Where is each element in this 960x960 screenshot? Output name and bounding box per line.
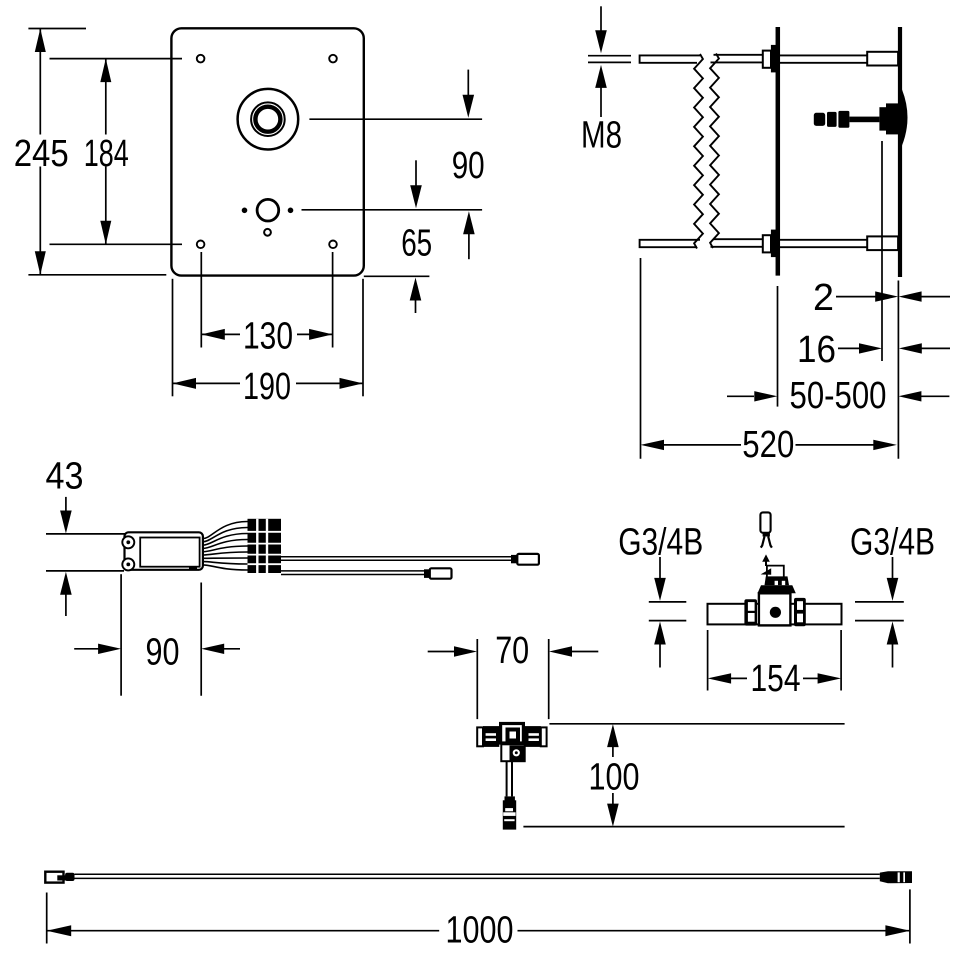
dim 190 left witness line — [172, 279, 174, 397]
dim 90 right arrow — [201, 644, 224, 654]
dim 130 arrow left — [201, 329, 225, 340]
wire 1 ferrule — [511, 555, 518, 563]
witness line electrode — [881, 141, 883, 361]
wire 2 ferrule — [424, 569, 430, 578]
ear circle top — [122, 536, 134, 548]
T center body — [501, 724, 524, 744]
witness line bracket plate — [777, 286, 779, 407]
SECTION: plate dimensions — [14, 29, 485, 409]
T center inner square — [508, 730, 519, 741]
dim 190 line left — [173, 382, 241, 384]
svg-text:16: 16 — [797, 329, 836, 371]
svg-text:50-500: 50-500 — [790, 375, 887, 417]
bottom anchor sleeve — [867, 236, 898, 250]
gland cap flare — [758, 585, 796, 593]
dim 245 arrow down — [35, 251, 46, 274]
svg-text:100: 100 — [589, 757, 640, 799]
witness line left rod end — [640, 258, 642, 459]
svg-text:154: 154 — [751, 658, 801, 700]
dim 16 — [838, 347, 860, 349]
SECTION: sensor cable drawing — [45, 871, 912, 952]
dim 184 line lower segment — [105, 167, 107, 245]
valve body dot — [770, 607, 781, 618]
right G3/4B arrow down — [892, 557, 894, 579]
dim 130 line left — [201, 333, 240, 335]
T stem — [506, 761, 508, 796]
dim 100 arrow down — [612, 793, 614, 805]
svg-text:245: 245 — [14, 133, 69, 175]
T lower box — [501, 744, 524, 761]
T lower box black insert — [510, 746, 525, 761]
insert arrow up — [762, 554, 770, 561]
outlet center reference line — [302, 209, 483, 211]
cable left ferrule — [57, 875, 66, 880]
top nut — [763, 51, 771, 68]
coil flag — [761, 568, 772, 575]
dim 43 arrow up — [60, 572, 72, 595]
right union nut — [794, 598, 806, 626]
screw hole bottom-left — [197, 241, 205, 249]
svg-text:520: 520 — [742, 424, 794, 466]
dim 1000 line right — [518, 930, 910, 932]
dim 184 arrow up — [100, 59, 111, 83]
front plate outline — [171, 28, 363, 275]
solenoid plug — [760, 512, 770, 532]
cable plug segment 2 — [827, 112, 837, 127]
gland cap upper — [765, 576, 790, 585]
sensor outer circle — [238, 89, 299, 150]
right pipe lines — [855, 601, 904, 603]
dim 130 right witness line — [332, 252, 334, 348]
cable left connector — [45, 872, 63, 883]
electrode body — [886, 103, 902, 134]
dim 100 bottom reference line — [523, 826, 844, 828]
dim 70 witness right — [548, 639, 550, 719]
long wire 2 — [281, 570, 425, 572]
dim 184 line upper segment — [105, 59, 107, 135]
T right cap — [541, 727, 547, 746]
dim 190 line right — [296, 382, 363, 384]
dim 90 witness left — [120, 574, 122, 696]
top washer — [771, 45, 776, 73]
top rod right segment — [714, 54, 764, 56]
grommet bulge — [902, 90, 908, 146]
right G3/4B arrow up — [887, 622, 899, 645]
arrow up to plate bottom — [410, 278, 422, 301]
dim 90 left arrow — [74, 648, 99, 650]
T collar — [505, 796, 515, 801]
dim 130 left witness line — [200, 252, 202, 348]
svg-text:2: 2 — [813, 277, 834, 319]
left pipe lines — [649, 601, 687, 603]
module outline — [125, 532, 203, 570]
SECTION: T-connector drawing — [428, 630, 845, 830]
T plug body — [503, 800, 516, 829]
screw hole top-left — [197, 55, 205, 63]
cable plug segment 3 — [838, 111, 849, 128]
arrow down to outlet line — [415, 160, 417, 186]
dim 90 witness right — [200, 583, 202, 696]
dim 154 witness left — [707, 630, 709, 691]
dim 100 top reference line — [549, 723, 844, 725]
bracket plate — [776, 27, 781, 276]
left G3/4B arrow down — [659, 557, 661, 579]
top anchor sleeve — [867, 52, 898, 66]
dim 520 — [641, 440, 665, 450]
dim 70 left arrow — [428, 651, 455, 653]
bottom rod right segment — [714, 238, 764, 240]
dim 190 arrow left — [173, 378, 197, 389]
connector stack — [248, 519, 282, 573]
svg-text:130: 130 — [243, 316, 293, 358]
long wire 1 — [281, 556, 512, 558]
M8 arrow up — [595, 65, 607, 88]
wire 1 end connector — [517, 554, 539, 565]
plug cable end — [763, 533, 770, 537]
left dot — [242, 208, 248, 214]
dim 130 arrow right — [309, 329, 333, 340]
svg-text:43: 43 — [46, 456, 84, 498]
dim 245 bottom witness line — [28, 274, 166, 276]
dim 184 top witness line — [50, 58, 183, 60]
sensor middle ring — [251, 102, 285, 136]
right dot — [288, 208, 294, 214]
small ring below outlet — [264, 229, 271, 236]
dim 1000 arrow right — [885, 925, 910, 936]
M8 witness ticks — [588, 55, 631, 57]
screw hole top-right — [329, 55, 337, 63]
dim 154 witness right — [840, 630, 842, 691]
electrode stem — [849, 117, 879, 123]
dim 245 line lower segment — [39, 167, 41, 275]
svg-text:70: 70 — [495, 630, 529, 672]
arrow up to outlet line — [463, 211, 475, 234]
dim 43 witness top — [46, 533, 125, 535]
M8 arrow down — [600, 6, 602, 32]
svg-text:184: 184 — [84, 133, 129, 175]
svg-text:90: 90 — [146, 632, 180, 674]
bottom nut — [763, 235, 771, 252]
sensor inner thick ring — [255, 107, 280, 132]
bottom washer — [771, 230, 776, 258]
dim 43 witness bottom — [46, 570, 124, 572]
T left cap — [477, 727, 483, 746]
dim 70 witness left — [476, 639, 478, 719]
wall line — [898, 27, 902, 277]
ear circle bottom — [122, 558, 134, 570]
svg-text:1000: 1000 — [446, 910, 514, 952]
SECTION: module dimensions — [46, 456, 241, 696]
svg-text:190: 190 — [243, 366, 291, 408]
SECTION: valve drawing — [618, 512, 935, 700]
valve body — [759, 593, 791, 625]
dim 70 right arrow — [549, 646, 572, 656]
T left block — [483, 726, 499, 747]
break zigzag right — [710, 54, 719, 249]
valve tube — [708, 604, 842, 625]
dim 1000 line left — [47, 930, 440, 932]
dim 1000 witness right — [909, 889, 911, 943]
dim 245 top witness line — [28, 28, 86, 30]
plate bottom right extension line — [364, 275, 430, 277]
dim 245 line upper segment — [39, 29, 41, 135]
dim 190 arrow right — [340, 378, 364, 389]
T right block — [525, 726, 541, 747]
dim 1000 witness left — [46, 893, 48, 944]
left G3/4B arrow up — [654, 622, 666, 645]
SECTION: front plate drawing — [171, 28, 363, 275]
dim 245 arrow up — [35, 29, 46, 53]
SECTION: bracket dimensions — [581, 6, 950, 466]
dim 2 — [836, 296, 877, 298]
wire fan — [203, 522, 248, 539]
electrode bar — [879, 107, 886, 130]
left union nut — [744, 599, 757, 625]
dim 154 arrow left — [708, 673, 732, 683]
dim 1000 arrow left — [47, 925, 71, 936]
svg-text:90: 90 — [452, 145, 485, 187]
outlet circle — [257, 199, 279, 221]
svg-text:M8: M8 — [581, 115, 622, 157]
module inner rect — [140, 538, 199, 567]
cable plug segment 1 — [814, 113, 825, 126]
SECTION: electronics module drawing — [122, 519, 539, 579]
svg-text:65: 65 — [401, 222, 432, 264]
dim 43 arrow down — [65, 497, 67, 512]
dim 130 line right — [297, 333, 333, 335]
SECTION: wall bracket drawing — [640, 27, 908, 277]
screw hole bottom-right — [329, 241, 337, 249]
dim 154 arrow right — [803, 677, 819, 679]
top rod left segment — [640, 55, 700, 62]
cable right connector — [880, 871, 912, 883]
cable lines — [75, 873, 880, 875]
coil bracket outline — [767, 566, 784, 577]
dim 50-500 — [727, 395, 754, 397]
sensor center reference line — [309, 118, 482, 120]
break zigzag left — [694, 54, 703, 249]
dim 184 bottom witness line — [50, 243, 183, 245]
dim 190 right witness line — [362, 279, 364, 397]
witness line wall — [897, 281, 899, 459]
wire 2 end connector — [430, 568, 452, 578]
arrow down to sensor line — [467, 70, 469, 96]
bottom rod left segment — [640, 240, 700, 247]
dim 100 arrow up — [607, 724, 619, 747]
dim 184 arrow down — [100, 221, 111, 245]
module bottom-right detail — [189, 566, 197, 569]
